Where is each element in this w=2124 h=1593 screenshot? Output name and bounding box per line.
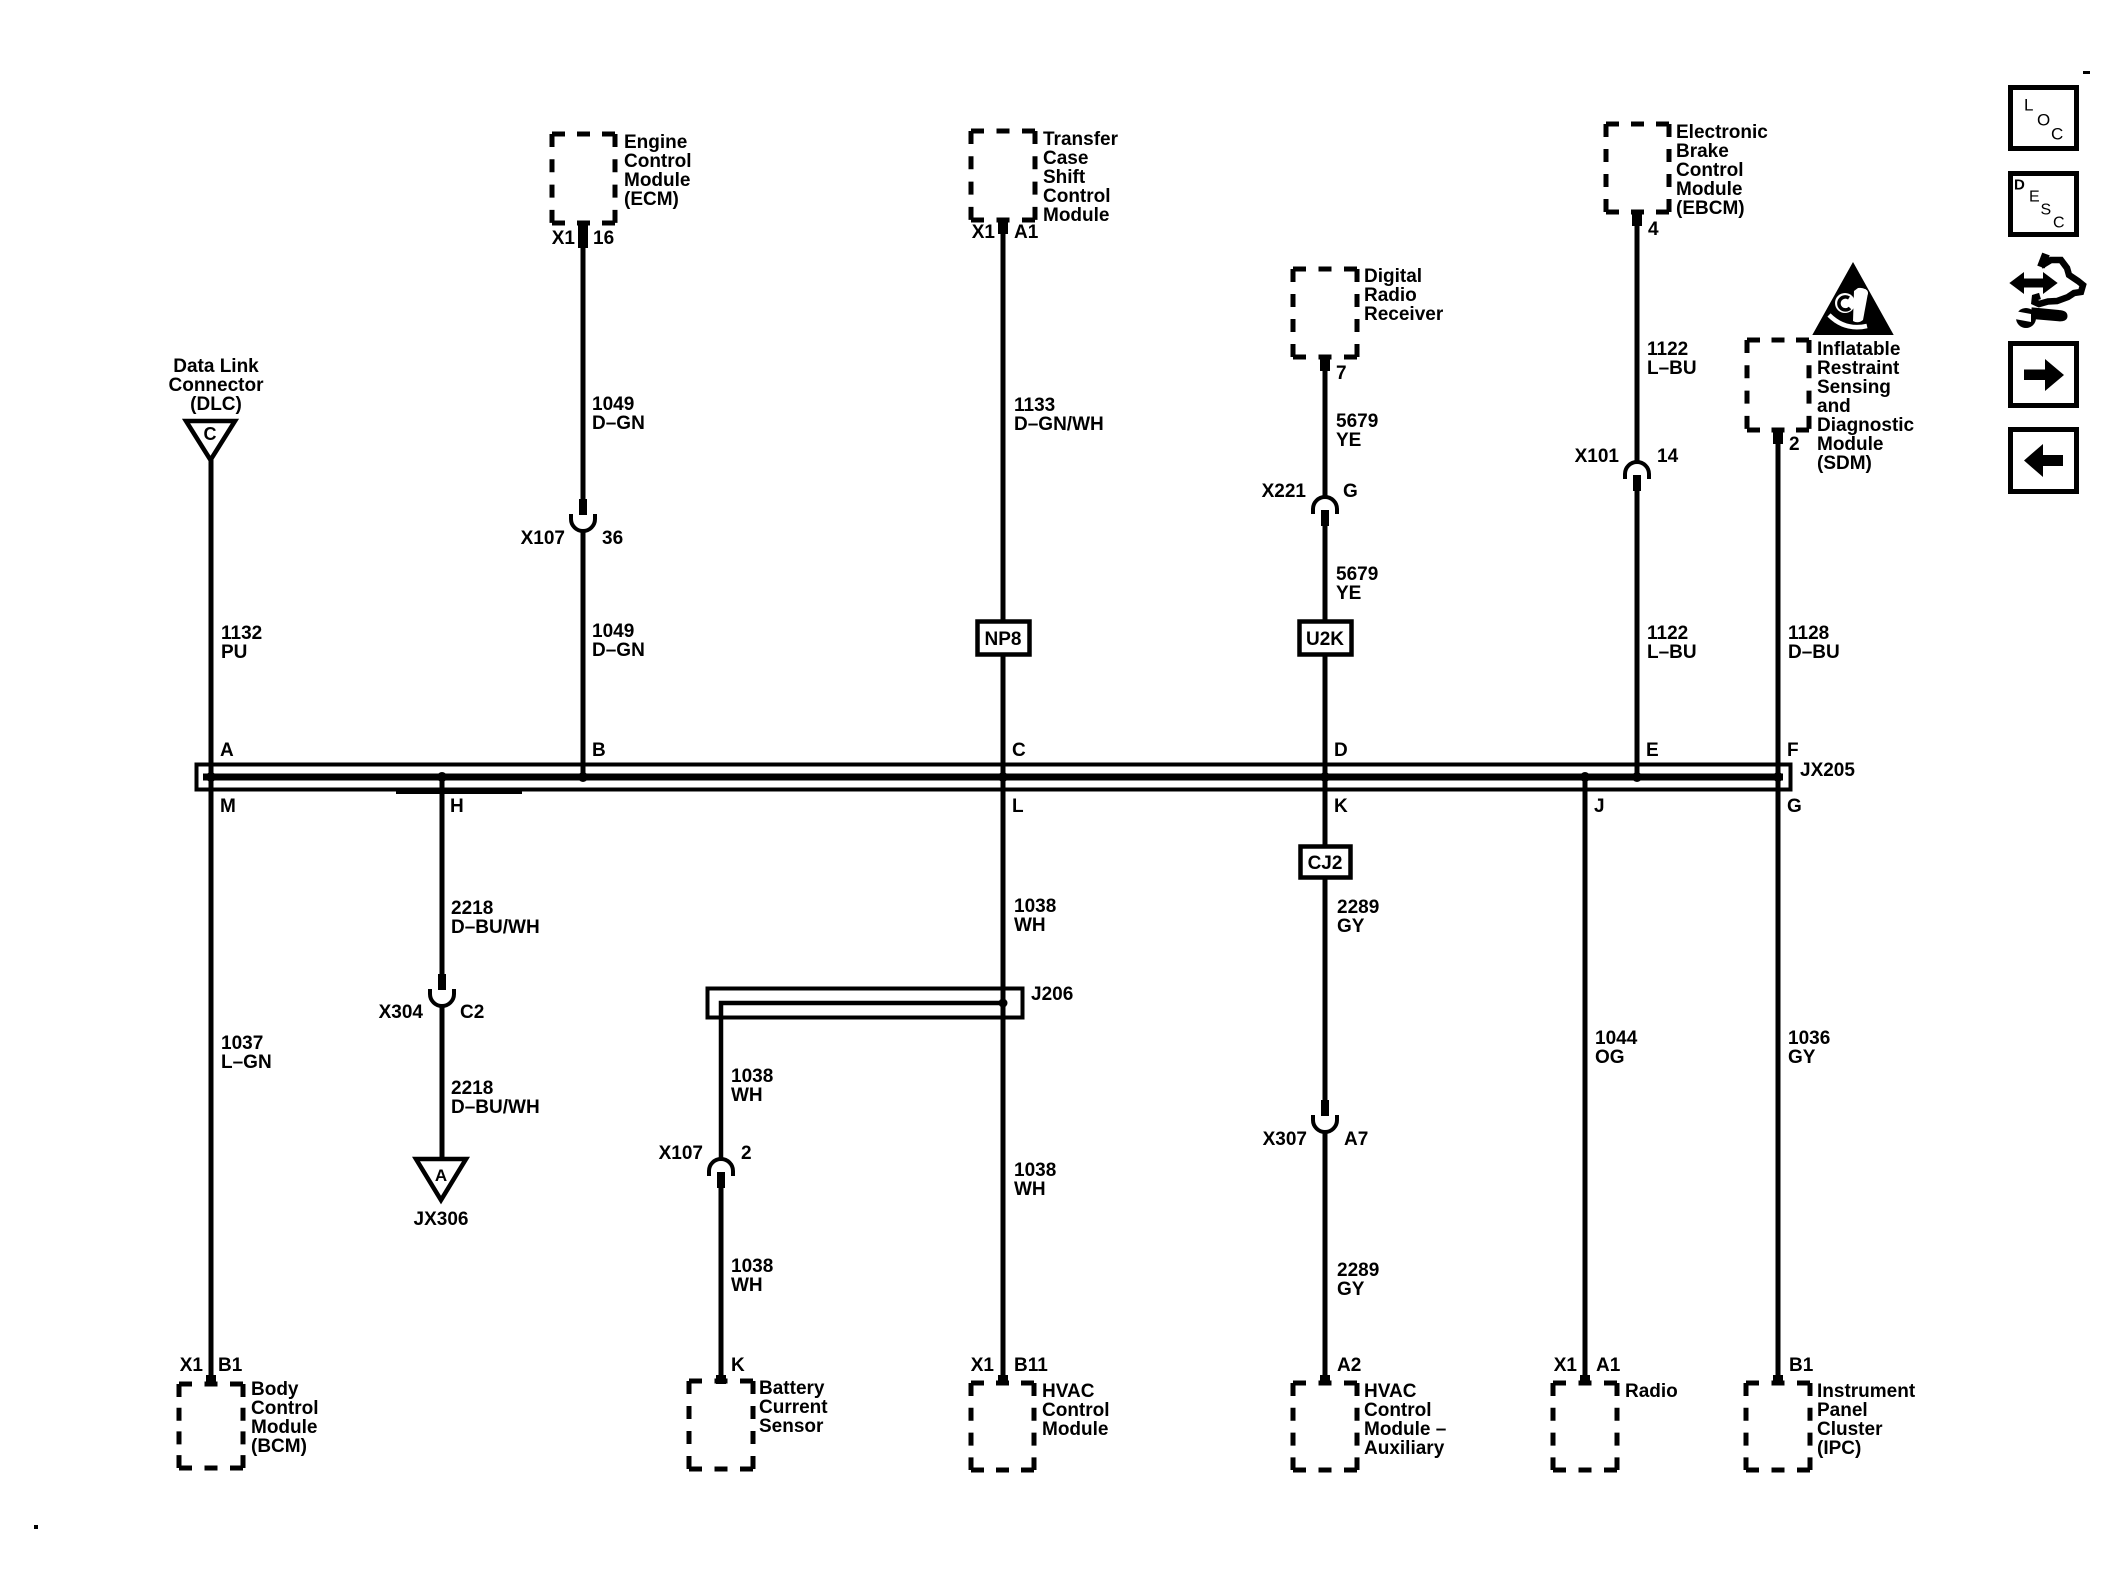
svg-text:Battery: Battery <box>759 1378 825 1399</box>
wire bus K to CJ2 <box>1323 777 1328 846</box>
junction dot node H <box>437 772 447 782</box>
svg-text:E: E <box>2029 189 2040 206</box>
bus JX205 outer box <box>197 765 1791 790</box>
svg-text:WH: WH <box>1014 1179 1046 1200</box>
svg-text:1037: 1037 <box>221 1033 263 1054</box>
wire J206 conductor to X107 <box>721 1003 1003 1159</box>
svg-text:Module: Module <box>1043 205 1110 226</box>
svg-text:B: B <box>592 740 606 761</box>
module Electronic Brake Control Module (EBCM) <box>1606 124 1669 212</box>
svg-text:1049: 1049 <box>592 621 634 642</box>
svg-text:L: L <box>2024 96 2033 115</box>
svg-text:Digital: Digital <box>1364 266 1422 287</box>
module Battery Current Sensor <box>689 1381 753 1469</box>
pin stub at EBCM <box>1632 212 1642 226</box>
svg-text:2: 2 <box>741 1143 752 1164</box>
svg-text:Control: Control <box>1364 1400 1432 1421</box>
module HVAC Control Module <box>971 1383 1034 1470</box>
svg-text:B11: B11 <box>1014 1355 1048 1376</box>
svg-text:GY: GY <box>1337 1279 1365 1300</box>
pin stub at HVAC Aux <box>1320 1375 1330 1384</box>
wire 1122 L-BU (X101 to bus E) <box>1635 491 1640 777</box>
svg-text:Sensor: Sensor <box>759 1416 824 1437</box>
connector X101 pin 14 <box>1625 462 1649 491</box>
pin stub at HVAC Control Module <box>998 1375 1008 1384</box>
svg-text:X107: X107 <box>521 528 565 549</box>
svg-text:1049: 1049 <box>592 394 634 415</box>
svg-text:4: 4 <box>1648 219 1659 240</box>
legend wrench and arrows icon <box>2011 254 2083 328</box>
svg-text:A: A <box>435 1166 447 1185</box>
svg-text:Engine: Engine <box>624 132 687 153</box>
svg-text:Auxiliary: Auxiliary <box>1364 1438 1445 1459</box>
svg-text:B1: B1 <box>218 1355 243 1376</box>
svg-text:Module –: Module – <box>1364 1419 1446 1440</box>
svg-text:L–BU: L–BU <box>1647 358 1697 379</box>
module HVAC Control Module - Auxiliary <box>1293 1383 1357 1470</box>
option box NP8 <box>978 622 1030 655</box>
svg-text:WH: WH <box>1014 915 1046 936</box>
junction dot node A <box>206 772 216 782</box>
pin stub at Battery Current Sensor <box>716 1375 726 1384</box>
legend DESC box <box>2011 174 2077 235</box>
svg-text:C2: C2 <box>460 1002 484 1023</box>
svg-text:D–GN: D–GN <box>592 640 645 661</box>
wire 5679 YE (X221 to U2K) <box>1323 526 1328 621</box>
module Inflatable Restraint Sensing and Diagnostic Module (SDM) <box>1747 340 1809 430</box>
svg-text:CJ2: CJ2 <box>1308 853 1343 874</box>
svg-text:D–BU/WH: D–BU/WH <box>451 917 540 938</box>
junction dot node B <box>578 772 588 782</box>
svg-text:C: C <box>1012 740 1026 761</box>
pin stub at Radio <box>1580 1375 1590 1384</box>
svg-text:YE: YE <box>1336 583 1361 604</box>
svg-text:D: D <box>2014 177 2025 194</box>
wire 1038 WH (bus L to HVAC) <box>1001 777 1006 1375</box>
connector C triangle (DLC) <box>186 421 235 460</box>
svg-text:GY: GY <box>1337 916 1365 937</box>
svg-text:X221: X221 <box>1262 481 1307 502</box>
svg-text:C: C <box>2051 125 2063 144</box>
svg-text:A1: A1 <box>1596 1355 1621 1376</box>
svg-text:Radio: Radio <box>1625 1381 1678 1402</box>
module Digital Radio Receiver <box>1293 269 1357 357</box>
svg-text:D: D <box>1334 740 1348 761</box>
svg-text:1038: 1038 <box>731 1256 773 1277</box>
stray mark top right <box>2083 71 2090 74</box>
svg-text:X1: X1 <box>971 1355 995 1376</box>
wire 1122 L-BU (EBCM to X101) <box>1635 226 1640 462</box>
svg-text:Sensing: Sensing <box>1817 377 1891 398</box>
svg-text:A7: A7 <box>1344 1129 1368 1150</box>
wire 1133 D-GN/WH (Transfer Case to NP8) <box>1001 234 1006 621</box>
svg-text:1132: 1132 <box>221 623 262 644</box>
svg-text:Restraint: Restraint <box>1817 358 1900 379</box>
svg-text:K: K <box>731 1355 745 1376</box>
svg-text:Panel: Panel <box>1817 1400 1868 1421</box>
svg-text:Module: Module <box>1676 179 1743 200</box>
connector X107 pin 36 <box>571 499 595 531</box>
svg-text:Cluster: Cluster <box>1817 1419 1883 1440</box>
svg-text:(SDM): (SDM) <box>1817 453 1872 474</box>
legend LOC box <box>2011 88 2077 149</box>
svg-text:O: O <box>2037 111 2050 130</box>
module Body Control Module (BCM) <box>179 1384 243 1468</box>
svg-text:C: C <box>204 424 217 444</box>
svg-text:WH: WH <box>731 1085 763 1106</box>
svg-text:X101: X101 <box>1575 446 1620 467</box>
svg-text:Radio: Radio <box>1364 285 1417 306</box>
svg-text:L: L <box>1012 796 1024 817</box>
svg-text:1038: 1038 <box>731 1066 773 1087</box>
svg-text:14: 14 <box>1657 446 1679 467</box>
wire 1038 WH (X107 to Battery Current Sensor) <box>719 1188 724 1375</box>
svg-text:1036: 1036 <box>1788 1028 1830 1049</box>
svg-text:D–GN/WH: D–GN/WH <box>1014 414 1104 435</box>
svg-text:2218: 2218 <box>451 898 493 919</box>
module Instrument Panel Cluster (IPC) <box>1746 1383 1810 1470</box>
svg-text:5679: 5679 <box>1336 564 1378 585</box>
svg-text:5679: 5679 <box>1336 411 1378 432</box>
svg-text:Inflatable: Inflatable <box>1817 339 1900 360</box>
svg-text:Instrument: Instrument <box>1817 1381 1916 1402</box>
svg-text:A1: A1 <box>1014 222 1039 243</box>
svg-text:Control: Control <box>624 151 692 172</box>
svg-text:X1: X1 <box>972 222 996 243</box>
svg-text:Module: Module <box>1817 434 1884 455</box>
svg-text:1128: 1128 <box>1788 623 1829 644</box>
module Transfer Case Shift Control Module <box>971 131 1035 220</box>
pin stub at Transfer Case <box>998 220 1008 234</box>
svg-text:H: H <box>450 796 464 817</box>
connector X304 pin C2 <box>430 974 454 1006</box>
svg-text:1038: 1038 <box>1014 1160 1056 1181</box>
svg-text:(DLC): (DLC) <box>190 394 242 415</box>
svg-text:D–GN: D–GN <box>592 413 645 434</box>
svg-text:Data Link: Data Link <box>173 356 259 377</box>
svg-text:X307: X307 <box>1263 1129 1307 1150</box>
svg-text:and: and <box>1817 396 1851 417</box>
svg-text:(BCM): (BCM) <box>251 1436 307 1457</box>
svg-text:2289: 2289 <box>1337 897 1379 918</box>
svg-text:Module: Module <box>1042 1419 1109 1440</box>
svg-text:Module: Module <box>624 170 691 191</box>
wire 1044 OG (bus J to Radio) <box>1583 777 1588 1375</box>
svg-text:OG: OG <box>1595 1047 1625 1068</box>
svg-text:D–BU/WH: D–BU/WH <box>451 1097 540 1118</box>
junction dot J206 <box>999 999 1008 1008</box>
pin stub at IPC <box>1773 1375 1783 1384</box>
scan artifact line below bus <box>396 791 522 794</box>
svg-text:E: E <box>1646 740 1659 761</box>
svg-text:S: S <box>2041 202 2052 219</box>
svg-text:1038: 1038 <box>1014 896 1056 917</box>
svg-text:Electronic: Electronic <box>1676 122 1768 143</box>
svg-text:1122: 1122 <box>1647 623 1688 644</box>
svg-text:Shift: Shift <box>1043 167 1086 188</box>
svg-text:Connector: Connector <box>169 375 265 396</box>
svg-text:Module: Module <box>251 1417 318 1438</box>
wire H (bus to X304) <box>440 777 445 974</box>
junction dot node D <box>1320 772 1330 782</box>
svg-text:G: G <box>1787 796 1802 817</box>
svg-text:J206: J206 <box>1031 984 1073 1005</box>
svg-text:L–BU: L–BU <box>1647 642 1697 663</box>
svg-text:JX205: JX205 <box>1800 760 1855 781</box>
svg-text:D–BU: D–BU <box>1788 642 1840 663</box>
connector X221 pin G <box>1313 497 1337 526</box>
pin stub at SDM <box>1773 430 1783 444</box>
svg-text:U2K: U2K <box>1306 629 1344 650</box>
svg-text:PU: PU <box>221 642 247 663</box>
pin stub at ECM <box>578 223 588 248</box>
svg-text:2218: 2218 <box>451 1078 493 1099</box>
legend forward arrow box <box>2011 344 2077 406</box>
option box CJ2 <box>1301 847 1351 878</box>
SIR warning triangle icon <box>1814 264 1892 334</box>
pin stub at BCM <box>206 1375 216 1384</box>
svg-text:F: F <box>1787 740 1799 761</box>
svg-text:HVAC: HVAC <box>1042 1381 1095 1402</box>
svg-text:7: 7 <box>1336 363 1347 384</box>
connector X107 pin 2 <box>709 1159 733 1188</box>
svg-text:M: M <box>220 796 236 817</box>
svg-text:WH: WH <box>731 1275 763 1296</box>
svg-text:1133: 1133 <box>1014 395 1055 416</box>
wire 1049 D-GN (X107 to bus B) <box>581 530 586 777</box>
legend back arrow box <box>2011 430 2077 492</box>
svg-text:Control: Control <box>1042 1400 1110 1421</box>
svg-text:K: K <box>1334 796 1348 817</box>
svg-text:GY: GY <box>1788 1047 1816 1068</box>
wire 1036 GY (bus G to IPC) <box>1776 777 1781 1375</box>
ground triangle A (JX306) <box>416 1159 466 1200</box>
svg-text:(EBCM): (EBCM) <box>1676 198 1745 219</box>
junction dot node C <box>998 772 1008 782</box>
bus J206 outer box <box>708 989 1023 1018</box>
module Radio <box>1553 1383 1617 1470</box>
option box U2K <box>1300 622 1352 655</box>
svg-text:G: G <box>1343 481 1358 502</box>
svg-text:C: C <box>2053 215 2065 232</box>
svg-text:16: 16 <box>593 228 614 249</box>
svg-text:Receiver: Receiver <box>1364 304 1444 325</box>
svg-text:1122: 1122 <box>1647 339 1688 360</box>
svg-text:Case: Case <box>1043 148 1088 169</box>
svg-text:2: 2 <box>1789 434 1800 455</box>
svg-text:X1: X1 <box>1554 1355 1578 1376</box>
wire 1128 D-BU (SDM to bus F) <box>1776 444 1781 777</box>
wire U2K to bus D <box>1323 654 1328 777</box>
wire 5679 YE (DRR to X221) <box>1323 371 1328 497</box>
pin stub at Digital Radio Receiver <box>1320 357 1330 371</box>
svg-text:Brake: Brake <box>1676 141 1729 162</box>
svg-text:HVAC: HVAC <box>1364 1381 1417 1402</box>
svg-text:JX306: JX306 <box>414 1209 469 1230</box>
wire 1132 PU / 1037 L-GN (DLC to BCM) <box>209 458 214 1375</box>
junction dot node E <box>1632 772 1642 782</box>
svg-text:A2: A2 <box>1337 1355 1361 1376</box>
svg-text:Body: Body <box>251 1379 299 1400</box>
wire NP8 to bus C <box>1001 654 1006 777</box>
svg-text:2289: 2289 <box>1337 1260 1379 1281</box>
wire 1049 D-GN (ECM to X107) <box>581 248 586 499</box>
svg-text:Control: Control <box>1676 160 1744 181</box>
wire 2289 GY (CJ2 to X307) <box>1323 877 1328 1100</box>
svg-text:Control: Control <box>251 1398 319 1419</box>
module Engine Control Module (ECM) <box>552 134 615 223</box>
svg-text:36: 36 <box>602 528 623 549</box>
svg-text:Control: Control <box>1043 186 1111 207</box>
svg-text:A: A <box>220 740 234 761</box>
svg-text:J: J <box>1594 796 1605 817</box>
svg-text:Current: Current <box>759 1397 828 1418</box>
svg-text:Transfer: Transfer <box>1043 129 1119 150</box>
svg-text:X107: X107 <box>659 1143 703 1164</box>
svg-text:(IPC): (IPC) <box>1817 1438 1861 1459</box>
svg-text:X1: X1 <box>180 1355 204 1376</box>
junction dot node F <box>1773 772 1783 782</box>
svg-text:YE: YE <box>1336 430 1361 451</box>
svg-text:X304: X304 <box>379 1002 424 1023</box>
svg-text:NP8: NP8 <box>985 629 1022 650</box>
connector X307 pin A7 <box>1313 1100 1337 1132</box>
svg-text:1044: 1044 <box>1595 1028 1638 1049</box>
wire 2218 D-BU/WH (X304 to JX306) <box>440 1005 445 1159</box>
bus JX205 center conductor <box>203 774 1783 781</box>
stray mark bottom left <box>34 1525 38 1529</box>
svg-text:Diagnostic: Diagnostic <box>1817 415 1915 436</box>
svg-text:(ECM): (ECM) <box>624 189 679 210</box>
junction dot node J <box>1580 772 1590 782</box>
svg-text:B1: B1 <box>1789 1355 1814 1376</box>
svg-text:X1: X1 <box>552 228 576 249</box>
svg-text:L–GN: L–GN <box>221 1052 272 1073</box>
wire 2289 GY (X307 to HVAC Aux) <box>1323 1131 1328 1375</box>
